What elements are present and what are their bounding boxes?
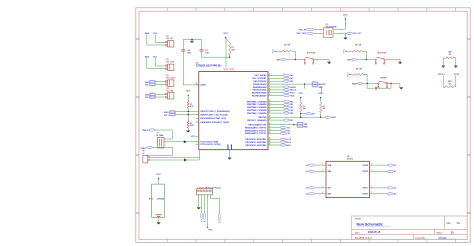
svg-text:I2C_IN: I2C_IN xyxy=(166,38,173,40)
wire VCC to R4 xyxy=(320,98,322,103)
svg-text:R6: R6 xyxy=(355,45,357,47)
ground (IC VSS) xyxy=(228,157,232,159)
svg-text:100n: 100n xyxy=(205,52,209,54)
IC right pins group A with net flags xyxy=(268,74,272,76)
wire node to R2 xyxy=(187,115,189,121)
resistor R2 4.7K xyxy=(187,120,189,128)
svg-text:VCC: VCC xyxy=(344,48,346,53)
wire R1 to node xyxy=(187,108,189,114)
svg-text:R8: R8 xyxy=(356,69,358,71)
wire resistor to corner (button2) xyxy=(362,50,366,52)
wire C17 down xyxy=(201,51,203,57)
title block outline xyxy=(352,216,468,239)
wire SCL group1 xyxy=(154,35,156,43)
svg-text:B1: B1 xyxy=(394,171,396,173)
svg-text:B2: B2 xyxy=(394,194,396,196)
wire rail to C16 xyxy=(182,40,184,50)
IC U5 left pin 3 xyxy=(315,187,326,189)
svg-text:VCC: VCC xyxy=(191,136,196,138)
svg-text:R1: R1 xyxy=(190,104,192,106)
header wire 5 to flag RST xyxy=(210,195,212,199)
svg-text:PB12/SPI2_NSS/TIM1: PB12/SPI2_NSS/TIM1 xyxy=(245,145,267,147)
svg-text:SWDIO: SWDIO xyxy=(290,87,297,89)
wire VCC to R3 xyxy=(300,98,302,103)
IC U5 left pin 2 xyxy=(315,170,326,172)
svg-text:GND: GND xyxy=(319,87,324,89)
sheet border frame (outer) xyxy=(136,8,470,243)
wire SDA group2 xyxy=(146,58,148,69)
svg-text:a1: a1 xyxy=(306,165,308,167)
svg-text:VCC: VCC xyxy=(223,33,228,35)
wire node to button (button2) xyxy=(366,59,375,61)
header wire 4 to VCC xyxy=(207,195,209,227)
frame row ticks left/right xyxy=(136,39,470,213)
wire CN2 riser xyxy=(199,150,201,160)
svg-text:C17: C17 xyxy=(205,50,208,52)
IC right pin BOOT0 row wire xyxy=(268,83,272,85)
svg-text:SG-3030CM: SG-3030CM xyxy=(326,27,337,29)
wire button to ground (button1) xyxy=(314,59,329,61)
wire R3 to flag xyxy=(301,113,306,115)
wire node B to ground xyxy=(387,83,400,85)
svg-text:OUTD: OUTD xyxy=(362,194,368,196)
net flag a2 xyxy=(308,187,314,189)
wire R2 to ground xyxy=(187,128,189,131)
wire resistor to corner (button1) xyxy=(291,50,295,52)
svg-text:MX612: MX612 xyxy=(347,159,353,161)
IC U5 right pin 8 xyxy=(370,164,388,166)
net flag A1 xyxy=(387,164,393,166)
connector CN2 body xyxy=(143,155,148,163)
svg-text:Drawn By:: Drawn By: xyxy=(416,237,426,239)
svg-text:TX2: TX2 xyxy=(287,127,290,129)
header wire 3 to flag SDA xyxy=(204,195,206,213)
svg-text:BUTTON: BUTTON xyxy=(378,53,387,55)
wire crystal to IC OSC32_IN xyxy=(164,141,199,143)
net flag b1 xyxy=(308,170,314,172)
header wire 2 to flag SCL xyxy=(201,195,203,213)
wire OSC_OUT xyxy=(313,32,323,34)
svg-text:PB12/SPI2_NSS/TIM1: PB12/SPI2_NSS/TIM1 xyxy=(245,142,267,144)
net flag B1 xyxy=(387,170,393,172)
wire oscillator output xyxy=(333,32,347,34)
IC U5 right pin 6 xyxy=(370,187,388,189)
resistor R3 10K xyxy=(300,102,302,112)
svg-text:OSC_OUT: OSC_OUT xyxy=(296,33,306,35)
svg-text:b1: b1 xyxy=(306,171,308,173)
wire VCC to battery xyxy=(158,178,160,184)
wire C16 to AVDD pin xyxy=(182,51,184,85)
wires R9 to grounds xyxy=(443,57,444,59)
svg-text:PB12/SPI2_NSS/TIM1: PB12/SPI2_NSS/TIM1 xyxy=(245,139,267,141)
junction dots pull-ups xyxy=(188,111,189,112)
svg-text:U5: U5 xyxy=(347,156,349,158)
net flag A2 xyxy=(387,187,393,189)
wire R3 node down to NRST rail xyxy=(300,114,302,118)
net flag a1 xyxy=(308,164,314,166)
svg-text:BOOT0: BOOT0 xyxy=(319,84,327,86)
svg-text:I2C_IN2: I2C_IN2 xyxy=(166,90,173,92)
battery BT1 holder xyxy=(152,184,165,217)
svg-text:a2: a2 xyxy=(306,188,308,190)
wire CN2 upper to IC xyxy=(149,156,199,158)
svg-text:RESET: RESET xyxy=(380,77,387,79)
wire VCC to R1 xyxy=(187,95,189,100)
IC bottom pin labels VSS xyxy=(227,144,229,149)
wire VCC to resistor (button1) xyxy=(276,50,281,52)
svg-text:VCC: VCC xyxy=(298,93,303,95)
ground (R9 left) xyxy=(441,65,445,67)
ground (rail) xyxy=(190,40,194,42)
wires group4 xyxy=(156,93,166,95)
oscillator U1 body xyxy=(323,28,333,37)
plug connector group3 xyxy=(149,80,155,86)
ground (battery) xyxy=(157,221,161,223)
wire XTAL1 to crystal xyxy=(155,129,172,131)
svg-text:VCC: VCC xyxy=(186,91,191,93)
wire R4 to NRST rail xyxy=(320,113,322,118)
junction dot (button1) xyxy=(295,59,296,60)
resistor R1 4.7K xyxy=(187,101,189,109)
ground (R9 right) xyxy=(454,65,458,67)
IC left pin AVDD xyxy=(196,84,199,86)
svg-text:INB: INB xyxy=(328,171,332,173)
wire OSC_IN xyxy=(313,29,323,31)
wire VCC to resistor (button2) xyxy=(347,50,352,52)
plug connector group5 xyxy=(169,111,175,116)
svg-text:VCC3.3: VCC3.3 xyxy=(437,74,445,76)
svg-text:R10: R10 xyxy=(448,81,451,83)
ground (button2) xyxy=(398,61,402,63)
svg-text:CK2: CK2 xyxy=(287,133,291,135)
junction + ground (oscillator) xyxy=(344,33,346,37)
svg-text:VCC: VCC xyxy=(343,14,348,16)
svg-text:SCLK: SCLK xyxy=(286,139,292,141)
header wire 1 to ground xyxy=(198,195,200,207)
svg-text:P1: P1 xyxy=(166,36,168,38)
svg-text:VCC: VCC xyxy=(208,230,213,232)
ground (button1) xyxy=(327,61,331,63)
IC U5 right pin 5 xyxy=(370,193,388,195)
svg-text:OUTC: OUTC xyxy=(362,188,368,190)
IC U5 left pin 4 xyxy=(315,193,326,195)
svg-text:32.768K: 32.768K xyxy=(156,135,164,137)
junction dot (button2) xyxy=(366,59,367,60)
wires VCC3.3 / VCC5 down xyxy=(442,76,444,87)
junction dot R7 xyxy=(229,57,230,58)
IC U2 body xyxy=(199,72,268,150)
net flag BT0 xyxy=(306,113,311,115)
wire AVDD rail xyxy=(183,39,201,41)
IC right pins group E with net flags xyxy=(268,138,272,140)
wire VSS to ground xyxy=(229,150,231,158)
IC right pin TX wire to plug xyxy=(268,124,272,126)
net flag NRST xyxy=(325,116,331,118)
resistor R9 body xyxy=(444,57,454,59)
sheet border frame (inner) xyxy=(139,11,467,239)
capacitor C17 100n xyxy=(200,49,204,51)
svg-text:MOSI: MOSI xyxy=(286,142,291,144)
battery plates xyxy=(155,214,161,216)
capacitor C3 branch xyxy=(366,84,368,89)
IC left pin VCC xyxy=(196,135,199,137)
net flag B2 xyxy=(387,193,393,195)
wire VCC down to IC xyxy=(225,38,227,68)
ground (pull-ups) xyxy=(186,130,190,132)
no-connect X marks on top pins xyxy=(223,68,225,70)
wire node to button (button1) xyxy=(295,59,304,61)
svg-text:R2: R2 xyxy=(190,123,192,125)
svg-text:OUTB: OUTB xyxy=(362,171,368,173)
svg-text:VCC5: VCC5 xyxy=(454,74,460,76)
svg-text:BUTTON: BUTTON xyxy=(307,53,316,55)
port arrow (CN2) xyxy=(184,158,187,161)
junction dot R3 bottom xyxy=(300,113,301,114)
net flag b2 xyxy=(308,193,314,195)
IC U5 right pin 7 xyxy=(370,170,388,172)
wire VCC to R7 top xyxy=(226,38,230,43)
resistor (button1) xyxy=(281,50,291,52)
IC left pins SDA/SCL rows xyxy=(196,117,199,119)
svg-text:CR1220: CR1220 xyxy=(157,199,165,201)
svg-text:VCC: VCC xyxy=(318,93,323,95)
svg-text:MISO: MISO xyxy=(286,145,291,147)
wire flag to node (button1) xyxy=(286,59,296,61)
svg-text:PB3: PB3 xyxy=(290,107,294,109)
svg-text:INT2: INT2 xyxy=(347,59,351,61)
crystal Y1 body xyxy=(158,137,164,148)
wire SCL1 to IC xyxy=(176,114,199,116)
IC right pin row with flag (PB7) xyxy=(268,119,272,121)
wire SCL group2 xyxy=(154,58,156,66)
svg-text:INC: INC xyxy=(328,188,332,190)
resistor R10 body xyxy=(443,86,456,88)
wire SDA group1 xyxy=(146,35,148,45)
resistor (button2) xyxy=(352,50,362,52)
svg-text:PC15-OSC32_OUT(6): PC15-OSC32_OUT(6) xyxy=(200,144,220,146)
svg-text:P3: P3 xyxy=(166,75,168,77)
svg-text:RX2: RX2 xyxy=(287,130,291,132)
wires group3 xyxy=(156,81,166,83)
net flag 32K_OUT xyxy=(347,32,353,34)
wire battery to ground xyxy=(158,217,160,222)
ground (header) xyxy=(197,206,201,208)
svg-text:SWCLK: SWCLK xyxy=(290,90,297,92)
svg-text:U1: U1 xyxy=(326,24,328,26)
svg-text:P2: P2 xyxy=(166,59,168,61)
wire R7 bottom xyxy=(229,55,231,57)
wire rail to C17 xyxy=(201,40,203,50)
wire button to ground (button2) xyxy=(385,59,400,61)
ground (reset) xyxy=(399,86,403,88)
svg-text:PB7: PB7 xyxy=(290,120,294,122)
IC U5 left pin 1 xyxy=(315,164,326,166)
plug connector group4 xyxy=(149,93,155,99)
wire SDA1 to IC xyxy=(176,110,199,112)
svg-text:1K5: 1K5 xyxy=(231,50,234,52)
svg-text:2018-05-15: 2018-05-15 xyxy=(368,231,381,234)
resistor R7 1K5 xyxy=(229,43,231,55)
plug connector TX/RX xyxy=(297,122,303,127)
svg-text:INT1: INT1 xyxy=(276,59,280,61)
IC right pins group D with net flags xyxy=(268,127,272,129)
wire flag to node (button2) xyxy=(357,59,367,61)
svg-text:New Schematic: New Schematic xyxy=(357,223,383,227)
svg-text:RXD2: RXD2 xyxy=(290,93,295,95)
wire R8 to node xyxy=(363,74,367,76)
wire VCC to oscillator xyxy=(344,19,346,29)
svg-text:REV:: REV: xyxy=(447,223,452,225)
header J1 body xyxy=(196,189,212,195)
svg-text:C16: C16 xyxy=(187,50,190,52)
svg-text:R5: R5 xyxy=(284,45,286,47)
svg-text:PB1: PB1 xyxy=(290,104,294,106)
port arrow (OSC32) xyxy=(184,140,187,143)
IC right pins group C with net flags xyxy=(268,101,272,103)
IC right pins group B with net flags xyxy=(268,86,272,88)
svg-text:TXD2: TXD2 xyxy=(290,96,295,98)
svg-text:R9: R9 xyxy=(449,54,451,56)
junction dot reset node A xyxy=(366,83,367,84)
svg-text:I2C_OUT2: I2C_OUT2 xyxy=(166,78,175,80)
svg-text:b2: b2 xyxy=(306,194,308,196)
junction dot rail xyxy=(191,39,192,40)
svg-text:BT0: BT0 xyxy=(312,114,315,116)
resistor R4 10K xyxy=(320,102,322,112)
wire flag to node A xyxy=(362,83,367,85)
svg-text:32K_OUT: 32K_OUT xyxy=(353,33,362,35)
IC left pins OSC32 xyxy=(196,141,199,143)
plug connector BOOT0 xyxy=(312,82,318,87)
junction dots NRST rail xyxy=(300,117,301,118)
svg-text:100n: 100n xyxy=(187,52,191,54)
wire node A to button xyxy=(367,83,378,85)
wire CN2 lower run xyxy=(149,159,199,161)
svg-text:PB5: PB5 xyxy=(290,113,294,115)
IC right pin NRST long wire xyxy=(268,116,272,118)
IC U5 body xyxy=(326,161,370,197)
resistor R8 10K xyxy=(352,74,363,76)
svg-text:Y1: Y1 xyxy=(156,132,158,134)
wire VCC to R8 xyxy=(351,74,353,76)
svg-text:I2C_OUT: I2C_OUT xyxy=(166,61,175,63)
svg-text:TITLE:: TITLE: xyxy=(355,219,362,221)
junction dot TX wire xyxy=(293,124,294,125)
svg-text:VCC: VCC xyxy=(273,48,275,53)
capacitor C16 100n xyxy=(181,49,185,51)
svg-text:IND: IND xyxy=(328,194,332,196)
wire bottom run to R7 xyxy=(202,56,230,58)
svg-text:SCL1: SCL1 xyxy=(164,115,169,117)
svg-text:VCC: VCC xyxy=(347,72,349,77)
svg-text:PB0: PB0 xyxy=(290,101,294,103)
junction dot reset node B xyxy=(390,83,391,84)
svg-text:OSC_IN: OSC_IN xyxy=(299,29,307,31)
svg-text:R7: R7 xyxy=(231,47,233,49)
svg-text:VCC: VCC xyxy=(156,174,161,176)
frame column ticks top/bottom xyxy=(167,8,456,243)
junction dot BOOT0 wire xyxy=(304,83,305,84)
wire XTAL2 loop to CN2 xyxy=(152,146,172,148)
